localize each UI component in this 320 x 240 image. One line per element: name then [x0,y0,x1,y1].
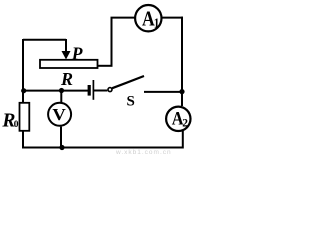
node: junction dot voltmeter bottom on bottom rail [59,145,64,150]
node: junction dot left rail / middle wire [21,88,26,93]
svg-text:0: 0 [14,120,19,130]
wire: left vertical rail lower (R0 box to bottom corner) [22,131,24,149]
wire: A1 right lead to top-right corner [162,17,184,19]
slider arrow shaft of rheostat [65,39,67,53]
svg-text:R: R [60,69,73,89]
voltmeter V circle [48,103,71,126]
wire: right rail from junction down to A2 [181,92,183,106]
wire: left vertical rail upper (top corner down to R0 box) [22,39,24,103]
svg-text:V: V [52,105,65,124]
wire: A1 left lead [111,17,136,19]
ammeter A2 circle [166,107,190,131]
switch S pivot circle [108,88,112,92]
wire: voltmeter top lead [60,91,62,103]
rheostat R body (rectangle) [40,60,98,68]
wire: top-left horizontal from left rail to slider arrow [23,39,66,41]
wire: rheostat right terminal stub [98,65,113,67]
battery positive plate (long thin) [92,80,94,100]
svg-text:w.xkb1.com.cn: w.xkb1.com.cn [115,149,172,155]
ammeter A1 circle [135,5,161,31]
svg-text:S: S [127,94,135,110]
resistor R0 body (rectangle on left rail) [20,103,30,131]
wire: switch fixed contact to right rail [144,91,182,93]
wire: bottom horizontal rail [23,147,183,149]
wire: voltmeter bottom lead [60,127,62,148]
svg-text:1: 1 [154,15,160,30]
node: junction dot right rail / middle wire [179,89,184,94]
wire: middle horizontal from left junction to battery [23,90,88,92]
node: junction dot voltmeter tap on middle wire [59,88,64,93]
wire: A2 bottom lead to bottom-right corner [182,131,184,149]
slider arrowhead P pointing down onto rheostat [62,51,71,60]
wire: right vertical rail upper (top corner to middle junction) [181,17,183,92]
wire: vertical up from rheostat to A1 level [111,18,113,66]
svg-text:2: 2 [182,118,188,130]
wire: battery to switch pivot [94,90,107,92]
switch S lever (open) [112,76,144,88]
battery negative plate (short thick) [88,85,91,96]
